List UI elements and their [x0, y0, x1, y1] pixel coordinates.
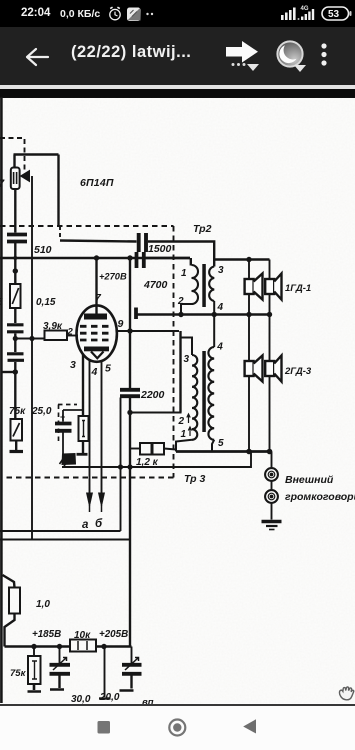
svg-text:Тр 3: Тр 3: [184, 473, 205, 485]
wire Tr3 pin5 to bus: [212, 440, 214, 452]
resistor R10k: [70, 640, 96, 652]
wire c2200 left plate column: [120, 398, 122, 532]
dashed stub feedback crossing: [59, 226, 61, 240]
node rail 59.5: [57, 644, 62, 649]
node bus 181: [178, 312, 183, 317]
wire feedback tap y412: [130, 412, 182, 414]
wire input top: [14, 153, 59, 155]
resistor R75k bottom: [33, 647, 35, 657]
wire caps to node372: [14, 362, 16, 419]
wiper arrow: [21, 171, 30, 182]
svg-text:2ГД-3: 2ГД-3: [284, 366, 312, 377]
wire primary bottom lead: [181, 304, 192, 315]
wire heater b: [101, 362, 103, 498]
svg-text:1,2 к: 1,2 к: [136, 457, 159, 468]
dashed mechanical link to volume pot: [0, 138, 25, 170]
svg-text:2200: 2200: [140, 389, 165, 401]
speaker SPK1a: [245, 279, 254, 294]
scan left border: [0, 97, 3, 703]
wire pot top lead: [13, 155, 15, 168]
svg-text:75к: 75к: [10, 668, 27, 679]
wire R to coupling caps: [14, 308, 16, 323]
svg-text:20,0: 20,0: [99, 692, 120, 703]
svg-text:1: 1: [181, 429, 187, 440]
capacitor plate T bar: [134, 308, 138, 320]
tube anode lead pin7: [95, 258, 97, 314]
svg-text:5: 5: [218, 438, 224, 449]
wire sec bottom to bus: [213, 301, 215, 347]
wire between terminals: [271, 481, 273, 490]
svg-text:+270В: +270В: [99, 272, 127, 282]
tube U 6П14П envelope: [77, 305, 117, 361]
capacitor C25,0 electrolytic: [62, 410, 64, 422]
transformer Tr3 left winding: [192, 355, 197, 440]
svg-text:1ГД-1: 1ГД-1: [285, 283, 311, 294]
speaker SPK2a: [245, 361, 254, 376]
svg-text:+: +: [60, 412, 65, 422]
svg-text:510: 510: [34, 244, 52, 256]
wire grid node: [15, 338, 44, 340]
capacitor C20,0: [131, 647, 133, 664]
node out bus A: [246, 449, 252, 455]
capacitor C1500: [137, 233, 141, 252]
svg-text:9: 9: [118, 318, 124, 330]
resistor R3,9k: [45, 331, 68, 341]
svg-text:30,0: 30,0: [71, 694, 91, 704]
transformer Tr2 primary winding: [192, 265, 199, 304]
wire wiper to grid node: [31, 176, 33, 540]
wire to R1,2k: [130, 448, 140, 450]
wire grid stopper to tube: [67, 335, 78, 337]
wire common bus y467: [62, 453, 251, 468]
node screen line: [127, 328, 132, 333]
arrow tap1: [188, 427, 191, 436]
app bar: [0, 27, 355, 85]
svg-text:10к: 10к: [74, 630, 91, 641]
wire screen column upper: [129, 258, 131, 389]
node bus 212: [212, 312, 217, 317]
wire rail to node 271: [14, 258, 16, 284]
capacitor C2200: [120, 388, 140, 392]
wire R75k bottom stub: [15, 441, 17, 451]
transformer Tr3 core: [202, 351, 206, 432]
wire B+ rail: [0, 257, 190, 259]
svg-text:4G: 4G: [301, 6, 309, 12]
dashed amplifier box top: [0, 225, 174, 227]
tube cathode bar: [84, 347, 109, 352]
speaker SPK2b: [265, 361, 274, 376]
dashed amplifier box right: [173, 226, 175, 478]
node bus 249: [246, 312, 251, 317]
svg-text:4: 4: [216, 342, 223, 353]
hand cursor: [339, 687, 353, 700]
wire 4700 to primary: [144, 257, 190, 259]
svg-text:5: 5: [105, 363, 111, 375]
node 372: [13, 369, 18, 374]
svg-text:1500: 1500: [148, 243, 172, 255]
speaker SPK1b: [265, 279, 274, 294]
wire feedback branch vertical: [57, 155, 59, 227]
navigation bar: [0, 706, 355, 750]
svg-text:53: 53: [328, 9, 340, 20]
node speaker col A: [246, 257, 251, 262]
wire pot bottom lead: [14, 189, 16, 233]
wire screen grid pin9: [116, 330, 180, 332]
svg-text:громкоговорит: громкоговорит: [285, 491, 355, 503]
ground: [262, 520, 282, 524]
wire bottom link y539.5: [0, 539, 130, 541]
resistor R cathode: [79, 416, 89, 441]
svg-text:3,9к: 3,9к: [43, 321, 63, 332]
wire R1,0 bottom: [5, 614, 15, 647]
node screen rail: [127, 255, 132, 260]
wire cathode down: [82, 354, 84, 416]
node bus x130: [127, 464, 132, 469]
transformer Tr2 core: [202, 264, 206, 307]
tube grids dashed: [80, 326, 112, 340]
wire coupling 1500 row: [60, 241, 137, 242]
node grid RC: [13, 336, 18, 341]
node C510-rail: [13, 256, 17, 260]
wire screen column lower: [129, 398, 131, 647]
svg-text:4700: 4700: [143, 279, 168, 291]
wire cathode R bottom: [82, 441, 84, 453]
svg-text:75к: 75к: [9, 406, 26, 417]
tube anode plate: [84, 314, 107, 320]
svg-text:+205В: +205В: [99, 629, 128, 640]
node rail 104: [101, 644, 106, 649]
capacitor C30,0: [59, 647, 61, 664]
wire stub minus lead: [104, 647, 106, 698]
wire 1500 to Tr2 sec top: [148, 242, 214, 267]
svg-text:б: б: [95, 518, 103, 530]
capacitor C4700: [135, 252, 139, 268]
dashed amplifier box bottom: [2, 477, 174, 479]
node out bus B: [267, 449, 273, 455]
wire left border jog to R1,0: [3, 575, 15, 588]
wire output bus y451.5: [176, 450, 272, 453]
svg-text:3: 3: [70, 359, 76, 371]
wire between caps: [14, 334, 16, 353]
resistor R1,0: [9, 588, 20, 614]
resistor R1,2k: [140, 443, 152, 455]
resistor R75k grid leak: [11, 419, 23, 441]
wire supply rail y646.5: [5, 645, 132, 647]
wire to ext terminal: [271, 452, 273, 469]
svg-text:4: 4: [217, 302, 224, 313]
wire Tr3 pin1 to bus: [176, 440, 192, 452]
svg-text:6П14П: 6П14П: [80, 177, 114, 189]
node wiper-grid: [29, 336, 34, 341]
dashed box cathode group: [58, 405, 77, 442]
wire heater a: [89, 361, 91, 498]
status bar: [0, 0, 355, 27]
node y412: [127, 410, 132, 415]
capacitor C510: [7, 233, 27, 237]
node bus x120: [118, 464, 123, 469]
svg-text:Тр2: Тр2: [193, 223, 212, 235]
wire speaker column A: [248, 260, 250, 452]
wire C510 to rail: [14, 243, 16, 258]
svg-text:5: 5: [0, 297, 3, 308]
svg-text:1: 1: [181, 268, 187, 279]
wire cathode cap link: [63, 409, 83, 411]
potentiometer R volume: [11, 168, 20, 190]
wire primary top lead: [190, 258, 192, 266]
capacitor Cg upper: [7, 323, 24, 326]
arrow heater a: [87, 493, 93, 506]
node rail 34: [31, 644, 36, 649]
svg-text:+185В: +185В: [32, 629, 61, 640]
wire R1,2k right: [164, 449, 176, 450]
node anode rail: [94, 255, 99, 260]
svg-text:4: 4: [91, 366, 98, 378]
tube cathode vee: [91, 352, 104, 359]
wire speaker feed top: [213, 258, 270, 260]
terminal ext top: [265, 468, 278, 481]
terminal ext bottom: [265, 490, 278, 503]
svg-text:3: 3: [184, 354, 190, 365]
arrow heater b: [99, 493, 105, 506]
wire terminal to ground: [271, 503, 273, 520]
wire speaker column B: [269, 260, 271, 452]
svg-text:1,0: 1,0: [36, 599, 50, 610]
wire bottom link y531: [0, 530, 121, 532]
chassis blob ground: [62, 454, 76, 465]
svg-text:0,15: 0,15: [36, 297, 56, 308]
svg-text:3: 3: [218, 265, 224, 276]
node left chain: [13, 268, 18, 273]
wire pin9 down to Tr3: [179, 331, 181, 413]
wire bus y314.5: [138, 313, 270, 315]
capacitor Cg lower: [7, 352, 24, 355]
node bus 269: [267, 312, 272, 317]
svg-text:а: а: [82, 519, 89, 531]
resistor R0,15: [10, 284, 21, 308]
svg-text:Внешний: Внешний: [285, 474, 334, 486]
svg-text:25,0: 25,0: [31, 406, 52, 417]
wire node372 to left border: [2, 371, 15, 373]
svg-text:2: 2: [178, 416, 185, 427]
transformer Tr2 secondary winding: [209, 267, 214, 302]
transformer Tr3 right winding: [208, 347, 214, 440]
arrow tap2: [187, 414, 190, 423]
